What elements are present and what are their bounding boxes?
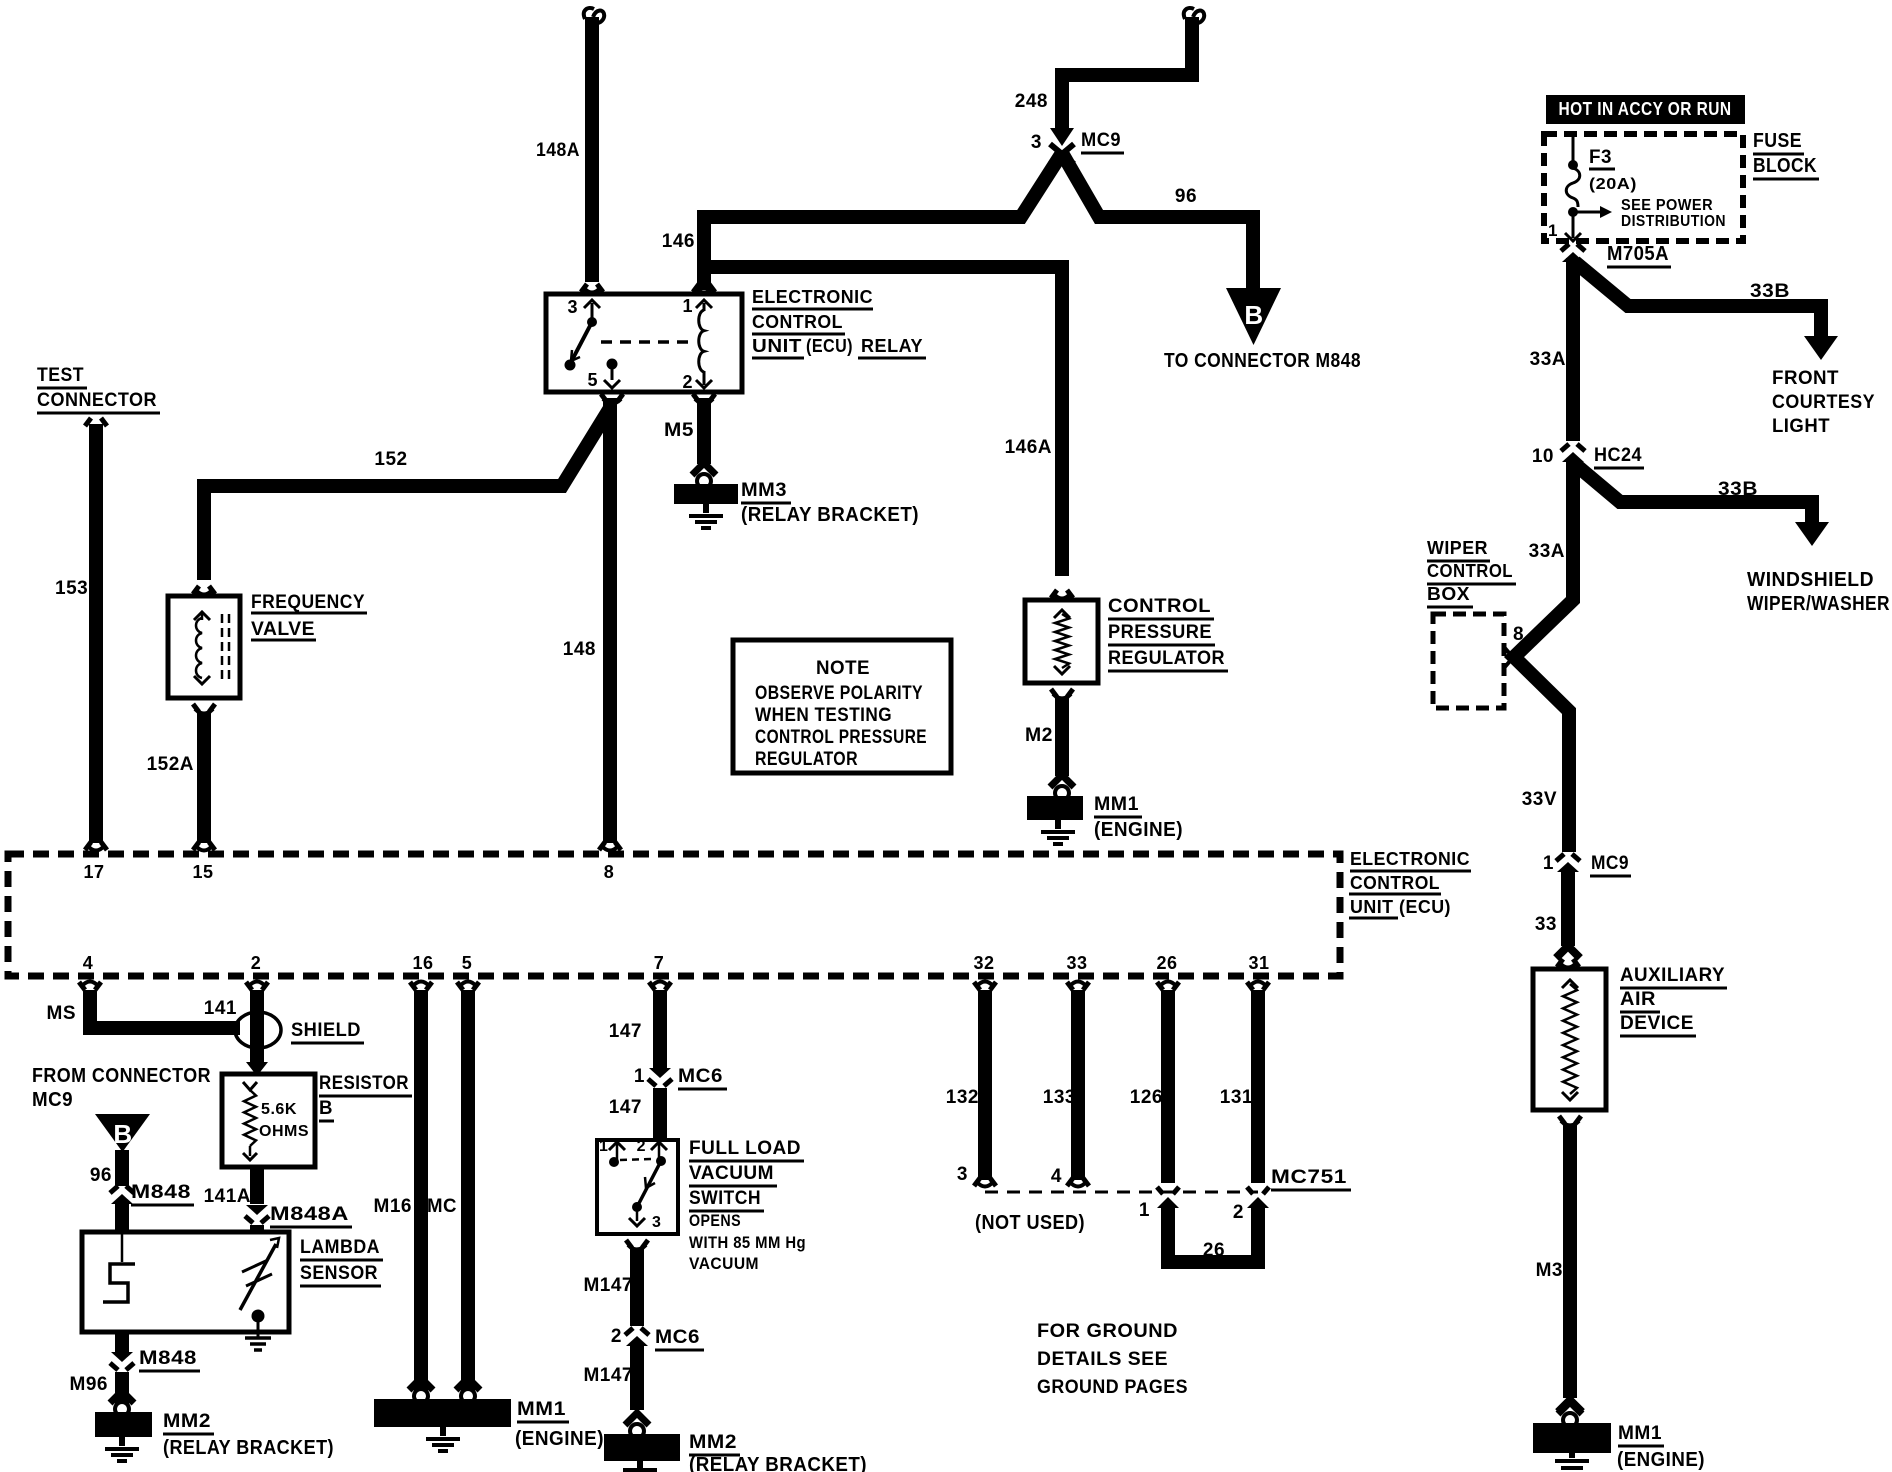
wire M2 [1055,697,1069,776]
svg-text:M96: M96 [70,1374,108,1395]
svg-text:17: 17 [83,862,104,882]
svg-text:LAMBDA: LAMBDA [300,1237,380,1258]
svg-text:MM3: MM3 [741,480,787,501]
fuse block dashed box [1544,134,1743,241]
arrowhead 33B top [1804,336,1838,360]
svg-text:33A: 33A [1529,541,1565,562]
wire M147 lower [630,1346,644,1410]
ECU dashed box [8,854,1340,976]
wire M3 [1563,1124,1577,1398]
svg-text:CONTROL: CONTROL [1350,873,1440,893]
svg-text:1: 1 [634,1066,645,1087]
svg-text:MC9: MC9 [32,1089,73,1111]
svg-text:WIPER: WIPER [1427,538,1488,558]
svg-text:M2: M2 [1025,725,1053,746]
svg-text:UNIT: UNIT [752,336,802,356]
svg-text:ELECTRONIC: ELECTRONIC [1350,849,1470,869]
relay blade end dot [565,360,576,371]
fuse F3 dot bottom [1568,207,1578,217]
svg-text:4: 4 [83,953,94,973]
svg-text:3: 3 [567,297,578,317]
svg-text:5: 5 [587,370,598,390]
svg-text:M3: M3 [1536,1260,1563,1281]
svg-text:147: 147 [609,1097,642,1118]
svg-text:MS: MS [47,1003,77,1024]
connector at relay pin 5 [601,394,623,402]
switch pin 1 dot [609,1157,619,1167]
svg-text:4: 4 [1051,1166,1062,1187]
svg-text:TO CONNECTOR M848: TO CONNECTOR M848 [1164,350,1361,372]
auxiliary air device box [1533,969,1606,1110]
connector above MM2 [110,1391,134,1403]
svg-text:1: 1 [599,1138,608,1155]
wire 152 [204,408,610,580]
svg-text:FULL LOAD: FULL LOAD [689,1138,801,1159]
connector above MM2 mid [625,1413,649,1425]
wire 141 [250,990,264,1062]
ground MM2 bar [95,1412,152,1437]
wire M16 [414,990,428,1398]
svg-text:148: 148 [563,639,596,660]
triangle connector B from MC9 [95,1114,150,1152]
wire 147 upper [653,990,667,1068]
control pressure regulator box [1025,600,1098,683]
svg-text:B: B [319,1098,333,1119]
connector above MM3 [692,463,716,475]
svg-text:DETAILS SEE: DETAILS SEE [1037,1349,1168,1370]
connector below ECU pin 7 [649,982,671,990]
relay K1 box (ECU relay) [546,294,742,392]
svg-text:M147: M147 [583,1275,633,1296]
wire M96 [115,1372,129,1410]
svg-text:MC: MC [427,1196,457,1217]
svg-text:33A: 33A [1530,349,1566,370]
ground MM2 symbol [119,1437,125,1446]
svg-text:(ENGINE): (ENGINE) [1617,1449,1705,1471]
connector above MM1 bar (MC) [456,1378,480,1390]
lambda heater element [121,1232,124,1262]
svg-text:VACUUM: VACUUM [689,1254,759,1273]
svg-text:146A: 146A [1005,437,1052,458]
svg-text:96: 96 [90,1165,112,1186]
relay pin 5 contact dot [607,359,618,370]
connector at relay pin 2 [693,394,715,402]
svg-text:COURTESY: COURTESY [1772,392,1875,413]
svg-text:131: 131 [1220,1087,1253,1108]
arrowhead wire 141 into resistor [246,1062,268,1076]
svg-text:(ENGINE): (ENGINE) [1094,819,1183,841]
fuse see power arrow [1573,211,1600,214]
svg-text:MC6: MC6 [678,1066,723,1087]
connector below ECU pin 26 [1157,982,1179,990]
svg-text:5: 5 [462,953,473,973]
wire 132 [978,990,992,1180]
connector below vacuum switch [626,1240,648,1248]
svg-text:M848A: M848A [270,1204,349,1225]
connector MC6 lower [625,1328,649,1335]
arrowhead wire 248 into MC9 [1050,128,1074,146]
svg-text:PRESSURE: PRESSURE [1108,622,1212,643]
frequency valve core lines [221,614,224,682]
wire 152A [197,712,211,843]
relay coil [699,310,704,372]
connector MC751 pin 2 [1247,1187,1269,1194]
svg-text:SWITCH: SWITCH [689,1188,761,1209]
connector below aux air device [1559,1116,1581,1124]
relay switch blade [570,322,592,364]
svg-text:OBSERVE POLARITY: OBSERVE POLARITY [755,683,923,704]
svg-text:M705A: M705A [1607,243,1669,265]
svg-text:2: 2 [637,1138,646,1155]
svg-text:5.6K: 5.6K [261,1101,297,1118]
svg-text:BOX: BOX [1427,584,1470,604]
ground MM1 bar [1027,796,1083,820]
svg-text:M147: M147 [583,1365,633,1386]
svg-text:DEVICE: DEVICE [1620,1013,1694,1034]
shield ellipse [235,1012,281,1048]
wire 147 lower [653,1088,667,1140]
ground MM2 symbol (mid) [637,1461,643,1468]
connector below ECU pin 16 [410,982,432,990]
svg-text:(RELAY BRACKET): (RELAY BRACKET) [163,1437,334,1459]
svg-text:248: 248 [1015,91,1048,112]
svg-text:M16: M16 [374,1196,412,1217]
svg-text:GROUND PAGES: GROUND PAGES [1037,1377,1188,1398]
ground MM1 bar (engine) [374,1399,511,1427]
wire 132 end connector [974,1178,996,1186]
svg-text:WIPER/WASHER: WIPER/WASHER [1747,593,1890,615]
connector below ECU pin 31 [1247,982,1269,990]
lambda ground symbol [245,1336,271,1340]
connector above MM1 bar (M16) [409,1378,433,1390]
svg-text:SENSOR: SENSOR [300,1263,378,1284]
switch dashed link [620,1159,653,1160]
connector below ECU pin 33 [1067,982,1089,990]
svg-text:2: 2 [1233,1202,1244,1223]
svg-text:3: 3 [652,1214,661,1231]
svg-text:MM1: MM1 [1618,1423,1662,1444]
connector at relay pin 3 [581,284,603,292]
svg-text:141A: 141A [204,1186,251,1207]
ground MM1 symbol (engine) [440,1427,446,1436]
svg-text:FREQUENCY: FREQUENCY [251,592,365,613]
ground MM1 symbol [1055,820,1061,829]
svg-text:2: 2 [682,372,693,392]
wire 146A [710,267,1062,576]
connector MC9 X junction [1050,144,1074,164]
svg-text:(ENGINE): (ENGINE) [515,1428,604,1450]
fuse F3 dot top [1568,160,1578,170]
switch blade dot [632,1202,642,1212]
svg-text:MM1: MM1 [517,1399,566,1420]
svg-text:REGULATOR: REGULATOR [755,749,858,770]
svg-text:10: 10 [1532,446,1554,467]
svg-text:AIR: AIR [1620,989,1656,1010]
svg-text:8: 8 [604,862,615,882]
svg-text:SEE POWER: SEE POWER [1621,197,1713,214]
svg-text:33V: 33V [1522,789,1557,810]
connector M705A [1561,244,1585,251]
switch pin 2 arrow [658,1143,661,1158]
svg-text:REGULATOR: REGULATOR [1108,648,1225,669]
svg-text:UNIT (ECU): UNIT (ECU) [1350,897,1451,917]
svg-text:33B: 33B [1718,479,1758,500]
svg-text:1: 1 [1543,853,1554,874]
note box [733,640,951,773]
wire 33 [1561,872,1575,946]
svg-text:15: 15 [192,862,213,882]
svg-text:7: 7 [654,953,665,973]
fuse F3 element [1566,168,1580,207]
svg-text:VACUUM: VACUUM [689,1163,774,1184]
svg-text:M848: M848 [131,1182,191,1203]
svg-text:BLOCK: BLOCK [1753,155,1817,177]
svg-text:FRONT: FRONT [1772,368,1839,389]
lambda internal dot [252,1310,265,1323]
wire into lambda top right [250,1225,264,1232]
svg-text:WITH 85 MM Hg: WITH 85 MM Hg [689,1233,806,1252]
svg-text:16: 16 [412,953,433,973]
svg-text:MC751: MC751 [1271,1167,1347,1188]
svg-text:MM2: MM2 [689,1432,737,1453]
svg-text:152A: 152A [147,754,194,775]
resistor B box [222,1074,315,1167]
wire 33B second branch [1576,465,1812,524]
svg-text:2: 2 [251,953,262,973]
connector MC751 pin 1 [1157,1187,1179,1194]
wire below lambda [115,1332,129,1354]
svg-text:(RELAY BRACKET): (RELAY BRACKET) [741,504,919,526]
connector below ECU pin 4 [79,982,101,990]
wiper control box dashed [1433,614,1504,708]
wire 96 from B [115,1150,129,1186]
svg-text:MM1: MM1 [1094,794,1139,815]
svg-text:M5: M5 [664,420,694,441]
relay mechanical link dashed [601,340,694,344]
switch blade [637,1161,661,1207]
ground MM1 symbol (right) [1569,1453,1575,1458]
wire 148A vertical into relay pin 3 [585,17,599,282]
svg-text:148A: 148A [536,140,580,161]
svg-text:1: 1 [1139,1200,1150,1221]
connector below ECU pin 5 [457,982,479,990]
wire MC [461,990,475,1398]
ground MM2 bar (mid) [604,1434,680,1461]
wire into lambda top left [115,1202,129,1232]
svg-text:MC9: MC9 [1591,853,1629,874]
svg-text:SHIELD: SHIELD [291,1020,361,1041]
svg-text:141: 141 [204,998,237,1019]
svg-text:FUSE: FUSE [1753,130,1802,152]
svg-text:F3: F3 [1589,147,1612,168]
svg-text:OPENS: OPENS [689,1211,741,1230]
svg-text:(RELAY BRACKET): (RELAY BRACKET) [689,1454,867,1472]
svg-text:153: 153 [55,578,88,599]
switch pin 2 dot [656,1156,666,1166]
full load vacuum switch box [597,1140,678,1234]
svg-text:VALVE: VALVE [251,619,315,640]
lambda sensing element [240,1244,276,1310]
svg-text:FOR GROUND: FOR GROUND [1037,1321,1178,1342]
svg-text:HC24: HC24 [1594,445,1642,466]
connector below frequency valve [193,704,215,712]
svg-text:8: 8 [1513,624,1524,645]
relay pin 5 internal arrow [611,364,614,380]
svg-text:M848: M848 [139,1348,197,1369]
wire 146 horizontal to relay [704,153,1062,290]
connector MC6 upper [649,1068,671,1078]
svg-text:MC9: MC9 [1081,130,1121,151]
connector at relay pin 1 [693,284,715,292]
svg-text:(ECU): (ECU) [806,336,853,356]
wire 131 [1251,990,1265,1183]
svg-text:33B: 33B [1750,281,1790,302]
svg-text:TEST: TEST [37,365,84,386]
svg-text:126: 126 [1130,1087,1163,1108]
svg-text:147: 147 [609,1021,642,1042]
svg-text:AUXILIARY: AUXILIARY [1620,965,1725,986]
wire 148 [603,398,617,843]
connector into frequency valve [193,586,215,594]
svg-text:RESISTOR: RESISTOR [319,1073,409,1094]
ground MM3 symbol [703,504,709,513]
svg-text:FROM CONNECTOR: FROM CONNECTOR [32,1065,211,1087]
svg-text:26: 26 [1203,1240,1225,1261]
ground MM3 bar [674,484,738,504]
svg-text:RELAY: RELAY [861,336,923,356]
svg-text:33: 33 [1535,914,1557,935]
ground MM1 bar (right) [1533,1423,1611,1453]
svg-text:MC6: MC6 [655,1327,700,1348]
svg-text:26: 26 [1156,953,1177,973]
connector M848 (lower) [111,1352,133,1362]
frequency valve box [168,596,240,698]
arrowhead 33B second [1795,522,1829,546]
svg-text:CONNECTOR: CONNECTOR [37,390,157,411]
connector at ECU pin 15 [193,842,215,850]
wire M147 upper [630,1248,644,1326]
lambda sensor box [82,1232,289,1332]
wire 33B top branch [1575,262,1821,338]
svg-text:CONTROL: CONTROL [1427,561,1513,581]
test connector flare [85,418,107,426]
svg-text:WHEN TESTING: WHEN TESTING [755,705,892,726]
svg-text:33: 33 [1066,953,1087,973]
svg-text:3: 3 [1031,132,1042,153]
svg-text:(NOT USED): (NOT USED) [975,1212,1085,1234]
triangle connector B to M848 [1226,288,1281,345]
not used dashed line [985,1191,1258,1194]
svg-text:CONTROL PRESSURE: CONTROL PRESSURE [755,727,927,748]
wire 153 [89,424,103,843]
connector HC24 [1561,444,1585,451]
wire 96 horizontal [1062,153,1253,288]
resistor B element [243,1082,257,1090]
wire 26 U-loop [1168,1206,1258,1262]
svg-text:WINDSHIELD: WINDSHIELD [1747,569,1874,591]
svg-text:133: 133 [1043,1087,1076,1108]
fuse F3 wire top [1572,134,1575,161]
control pressure regulator element [1055,614,1069,668]
auxiliary air device element [1563,984,1577,1094]
svg-text:96: 96 [1175,186,1197,207]
svg-text:NOTE: NOTE [816,658,870,679]
wire 33A upper [1566,258,1580,441]
svg-text:LIGHT: LIGHT [1772,416,1830,437]
svg-text:2: 2 [611,1326,622,1347]
hot in accy banner [1546,95,1745,124]
switch pin 1 arrow [616,1143,619,1160]
relay pin 3 contact dot [587,317,597,327]
svg-text:132: 132 [946,1087,979,1108]
svg-text:DISTRIBUTION: DISTRIBUTION [1621,213,1726,230]
connector into control pressure regulator [1051,590,1073,598]
connector above MM1 right [1558,1402,1582,1414]
svg-text:ELECTRONIC: ELECTRONIC [752,287,873,307]
connector below ECU pin 32 [974,982,996,990]
svg-text:146: 146 [662,231,695,252]
svg-text:(20A): (20A) [1589,176,1637,193]
relay pin 3 internal arrow [591,303,594,322]
svg-text:OHMS: OHMS [259,1123,309,1140]
connector below ECU pin 2 [246,982,268,990]
svg-text:MM2: MM2 [163,1411,211,1432]
connector above MM1 [1050,775,1074,787]
svg-text:HOT IN ACCY OR RUN: HOT IN ACCY OR RUN [1559,99,1732,119]
frequency valve coil [196,618,202,678]
connector M848A [246,1205,268,1215]
svg-text:1: 1 [682,296,693,316]
svg-text:B: B [1244,300,1263,330]
svg-text:31: 31 [1248,953,1269,973]
wire 141A [250,1167,264,1204]
connector below regulator [1051,689,1073,697]
svg-text:CONTROL: CONTROL [752,312,843,332]
wire 133 [1071,990,1085,1180]
svg-text:CONTROL: CONTROL [1108,596,1211,617]
svg-text:B: B [113,1119,132,1149]
svg-text:32: 32 [973,953,994,973]
wire 33A to wiper box [1514,462,1573,852]
connector at ECU pin 8 [599,842,621,850]
svg-text:152: 152 [374,449,407,470]
wire M5 [697,398,711,464]
connector M848 (upper) [110,1186,134,1193]
switch pin 3 arrow [636,1207,639,1221]
wire 133 end connector [1067,1178,1089,1186]
connector into aux air device [1557,959,1579,967]
wire 126 [1161,990,1175,1183]
svg-text:3: 3 [957,1164,968,1185]
svg-text:1: 1 [1548,221,1558,240]
wire MS [90,990,240,1028]
wire 248 from top hook to MC9 [1062,17,1192,128]
lambda ground stem [257,1316,260,1338]
connector MC9 right [1556,854,1580,861]
connector at ECU pin 17 [85,842,107,850]
wiper box X junction [1504,647,1522,668]
fuse F3 wire bottom [1572,212,1575,238]
